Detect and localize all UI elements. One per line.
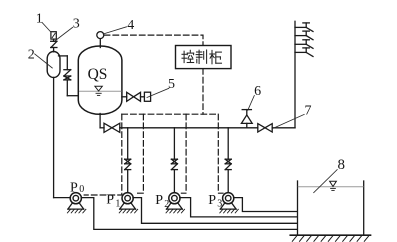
- svg-text:3: 3: [217, 199, 222, 210]
- svg-text:2: 2: [164, 199, 169, 210]
- svg-text:2: 2: [28, 48, 35, 63]
- svg-text:P: P: [155, 193, 163, 208]
- svg-text:0: 0: [79, 184, 84, 195]
- svg-text:P: P: [70, 180, 78, 195]
- svg-text:P: P: [106, 193, 114, 208]
- svg-text:1: 1: [115, 199, 120, 210]
- svg-text:7: 7: [305, 103, 312, 118]
- svg-text:3: 3: [73, 17, 80, 32]
- svg-text:QS: QS: [88, 66, 108, 83]
- svg-text:1: 1: [36, 12, 43, 27]
- svg-text:4: 4: [127, 18, 134, 33]
- svg-text:8: 8: [338, 157, 346, 173]
- svg-text:5: 5: [168, 77, 175, 92]
- svg-text:P: P: [208, 193, 216, 208]
- svg-text:6: 6: [254, 84, 261, 99]
